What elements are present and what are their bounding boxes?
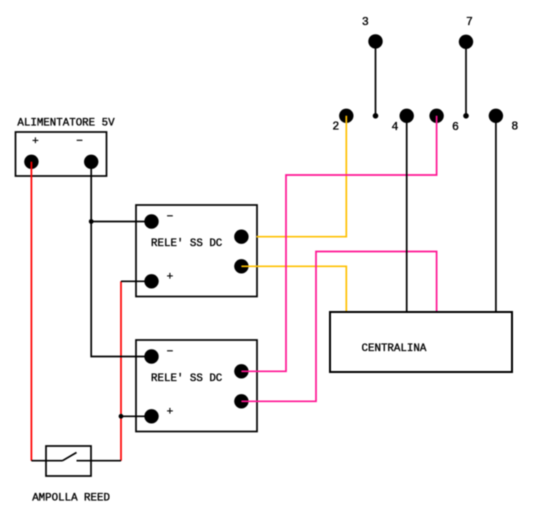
- svg-text:+: +: [167, 406, 174, 418]
- svg-text:8: 8: [511, 121, 518, 134]
- svg-text:ALIMENTATORE 5V: ALIMENTATORE 5V: [17, 118, 115, 130]
- svg-text:RELE' SS DC: RELE' SS DC: [151, 238, 223, 250]
- svg-text:−: −: [167, 212, 174, 224]
- svg-text:−: −: [76, 136, 83, 148]
- svg-text:2: 2: [332, 120, 339, 133]
- svg-text:−: −: [167, 347, 174, 359]
- svg-text:+: +: [167, 271, 174, 283]
- svg-text:RELE' SS DC: RELE' SS DC: [151, 373, 223, 385]
- svg-text:3: 3: [362, 16, 369, 29]
- svg-text:+: +: [32, 136, 39, 148]
- svg-text:AMPOLLA REED: AMPOLLA REED: [32, 493, 110, 505]
- svg-text:CENTRALINA: CENTRALINA: [362, 343, 427, 355]
- svg-text:4: 4: [391, 121, 398, 134]
- svg-text:7: 7: [466, 16, 473, 29]
- svg-text:6: 6: [452, 121, 459, 134]
